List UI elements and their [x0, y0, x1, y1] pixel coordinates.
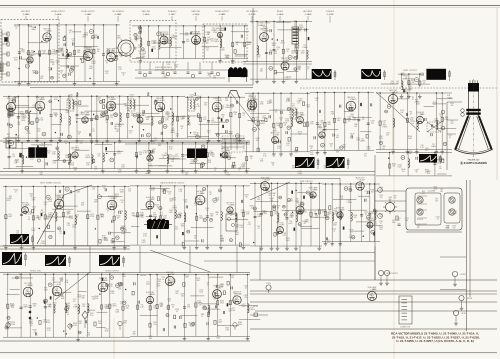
svg-text:.001: .001 [175, 228, 178, 230]
svg-text:SPKR: SPKR [392, 273, 398, 275]
svg-text:KINE CIRCUIT: KINE CIRCUIT [300, 181, 313, 183]
svg-text:.0047: .0047 [156, 285, 160, 287]
svg-text:.0047: .0047 [300, 53, 304, 55]
svg-text:120: 120 [226, 57, 229, 59]
svg-text:⊙ 6AQ5: ⊙ 6AQ5 [258, 24, 265, 27]
svg-text:47: 47 [449, 137, 451, 139]
svg-text:P103: P103 [266, 283, 270, 285]
svg-text:1 MEG: 1 MEG [40, 243, 46, 245]
svg-text:680: 680 [231, 63, 234, 65]
svg-text:680: 680 [185, 174, 188, 176]
svg-text:.05: .05 [65, 143, 67, 145]
svg-text:47: 47 [15, 192, 17, 194]
svg-text:.0047: .0047 [44, 290, 48, 292]
svg-text:47: 47 [412, 99, 414, 101]
svg-text:120: 120 [304, 211, 307, 213]
svg-text:47: 47 [243, 115, 245, 117]
svg-text:680: 680 [206, 42, 209, 44]
svg-text:.01: .01 [162, 279, 164, 281]
svg-text:.001: .001 [175, 156, 178, 158]
svg-text:.001: .001 [44, 204, 47, 206]
svg-text:.01: .01 [307, 68, 309, 70]
svg-text:18: 18 [56, 63, 58, 65]
svg-text:120: 120 [425, 150, 428, 152]
svg-text:18: 18 [131, 115, 133, 117]
svg-text:.05: .05 [103, 187, 105, 189]
svg-text:120: 120 [37, 131, 40, 133]
svg-text:680: 680 [175, 66, 178, 68]
svg-text:47: 47 [239, 170, 241, 172]
svg-text:HORIZ. OSC: HORIZ. OSC [30, 271, 42, 273]
svg-text:.001: .001 [354, 126, 357, 128]
svg-text:47: 47 [333, 168, 335, 170]
svg-text:120: 120 [168, 301, 171, 303]
svg-text:.0047: .0047 [349, 237, 353, 239]
svg-text:680: 680 [409, 153, 412, 155]
svg-text:1 MEG: 1 MEG [293, 53, 299, 55]
svg-text:.05: .05 [216, 214, 218, 216]
svg-text:.0047: .0047 [14, 60, 18, 62]
svg-text:120: 120 [30, 159, 33, 161]
svg-text:120: 120 [371, 123, 374, 125]
svg-text:47: 47 [208, 75, 210, 77]
svg-text:.01: .01 [106, 122, 108, 124]
svg-text:.01: .01 [98, 156, 100, 158]
svg-text:47: 47 [60, 73, 62, 75]
svg-text:1 MEG: 1 MEG [111, 306, 117, 308]
svg-text:.0047: .0047 [8, 216, 12, 218]
svg-text:1 MEG: 1 MEG [85, 157, 91, 159]
svg-text:47: 47 [351, 136, 353, 138]
svg-text:.05: .05 [127, 110, 129, 112]
svg-text:.05: .05 [176, 311, 178, 313]
svg-text:5%: 5% [292, 106, 295, 108]
svg-text:120: 120 [451, 105, 454, 107]
svg-text:680: 680 [343, 147, 346, 149]
svg-text:1 MEG: 1 MEG [140, 56, 146, 58]
svg-text:120: 120 [452, 227, 455, 229]
svg-text:47: 47 [380, 223, 382, 225]
svg-text:.0047: .0047 [93, 37, 97, 39]
svg-text:.0047: .0047 [98, 323, 103, 325]
svg-text:680: 680 [133, 334, 136, 336]
svg-text:1 MEG: 1 MEG [98, 117, 104, 119]
svg-text:680: 680 [146, 119, 149, 121]
svg-text:47: 47 [107, 211, 109, 213]
svg-text:.0047: .0047 [89, 68, 93, 70]
svg-text:WIDTH: WIDTH [140, 275, 147, 277]
svg-text:1 MEG: 1 MEG [317, 126, 323, 128]
svg-text:.05: .05 [198, 118, 200, 120]
svg-text:120: 120 [380, 197, 383, 199]
svg-text:.01: .01 [333, 231, 335, 233]
svg-text:680: 680 [8, 323, 11, 325]
svg-text:.05: .05 [206, 210, 208, 212]
svg-text:120: 120 [244, 297, 247, 299]
svg-text:.0047: .0047 [273, 130, 277, 132]
svg-text:U, 21-T-6256, U, 21-T-6257, U: U, 21-T-6256, U, 21-T-6257, U (Ch. KCS76… [396, 339, 474, 343]
svg-text:SPKR: SPKR [460, 274, 466, 276]
svg-text:47: 47 [162, 157, 164, 159]
svg-text:18: 18 [59, 51, 61, 53]
svg-text:.01: .01 [160, 305, 162, 307]
svg-text:.05: .05 [28, 219, 30, 221]
svg-text:1 MEG: 1 MEG [382, 127, 388, 129]
svg-text:.01: .01 [33, 332, 35, 334]
svg-text:18: 18 [214, 170, 216, 172]
svg-text:.001: .001 [210, 40, 213, 42]
svg-text:⊙ 6AU6: ⊙ 6AU6 [55, 13, 62, 16]
svg-text:47: 47 [135, 40, 137, 42]
svg-text:⊙ 6AB4: ⊙ 6AB4 [85, 13, 92, 16]
svg-text:.001: .001 [131, 215, 134, 217]
svg-text:.01: .01 [124, 105, 126, 107]
svg-text:47: 47 [21, 50, 23, 52]
svg-text:1 MEG: 1 MEG [105, 308, 111, 310]
svg-text:.01: .01 [194, 237, 196, 239]
svg-text:680: 680 [389, 199, 392, 201]
svg-text:⊙ 6CB6: ⊙ 6CB6 [249, 13, 256, 16]
svg-text:RATIO DET: RATIO DET [192, 10, 201, 13]
svg-text:.05: .05 [67, 314, 69, 316]
svg-text:18: 18 [43, 53, 45, 55]
svg-text:680: 680 [196, 134, 199, 136]
svg-text:RF AGC: RF AGC [277, 10, 284, 13]
svg-text:.01: .01 [250, 208, 252, 210]
svg-text:.0047: .0047 [165, 113, 169, 115]
svg-text:.05: .05 [204, 200, 206, 202]
svg-text:120: 120 [435, 201, 438, 203]
svg-text:ANT INPUT: ANT INPUT [22, 10, 31, 13]
svg-text:47: 47 [106, 62, 108, 64]
svg-text:.05: .05 [310, 148, 312, 150]
svg-text:.01: .01 [257, 228, 259, 230]
svg-text:680: 680 [197, 280, 200, 282]
svg-text:.0047: .0047 [366, 149, 370, 151]
svg-text:.01: .01 [288, 78, 290, 80]
svg-text:.0047: .0047 [288, 223, 292, 225]
svg-text:120: 120 [286, 145, 289, 147]
svg-text:.0047: .0047 [295, 200, 299, 202]
svg-text:.0047: .0047 [218, 322, 223, 324]
svg-text:120: 120 [231, 277, 234, 279]
svg-text:Ⓢ 21ATP4 CHASSIS: Ⓢ 21ATP4 CHASSIS [460, 161, 487, 165]
svg-text:⊙ 6AU6: ⊙ 6AU6 [305, 13, 312, 16]
svg-text:.001: .001 [175, 293, 178, 295]
svg-text:1 MEG: 1 MEG [73, 307, 79, 309]
svg-text:⊙ 6AQ5: ⊙ 6AQ5 [193, 13, 200, 16]
svg-text:47: 47 [277, 49, 279, 51]
svg-text:680: 680 [296, 50, 299, 52]
svg-text:47: 47 [201, 316, 203, 318]
svg-text:1 MEG: 1 MEG [346, 202, 352, 204]
svg-text:.0047: .0047 [408, 138, 412, 140]
svg-text:.001: .001 [336, 137, 339, 139]
svg-text:1 MEG: 1 MEG [225, 107, 231, 109]
svg-text:18: 18 [365, 214, 367, 216]
svg-text:.0047: .0047 [141, 242, 145, 244]
svg-text:.0047: .0047 [286, 240, 290, 242]
svg-text:.01: .01 [163, 38, 165, 40]
svg-text:680: 680 [184, 201, 187, 203]
svg-text:⊙ 6AB4: ⊙ 6AB4 [219, 13, 226, 16]
svg-text:680: 680 [152, 151, 155, 153]
svg-text:.05: .05 [405, 78, 407, 80]
svg-text:.05: .05 [234, 295, 236, 297]
svg-text:.001: .001 [422, 193, 425, 195]
svg-text:USED IN REMOTE CIRCUIT: USED IN REMOTE CIRCUIT [160, 183, 185, 185]
svg-text:120: 120 [439, 168, 442, 170]
svg-text:CONNECTOR: CONNECTOR [400, 327, 411, 329]
svg-text:.0047: .0047 [229, 134, 233, 136]
svg-text:18: 18 [250, 158, 252, 160]
svg-text:1ST AUDIO: 1ST AUDIO [168, 10, 177, 13]
svg-text:.01: .01 [194, 205, 196, 207]
svg-text:.01: .01 [53, 305, 55, 307]
svg-text:1 MEG: 1 MEG [15, 137, 21, 139]
svg-text:120: 120 [154, 324, 157, 326]
svg-text:680: 680 [150, 166, 153, 168]
svg-text:.0047: .0047 [151, 49, 155, 51]
svg-text:.05: .05 [19, 276, 21, 278]
svg-text:47: 47 [277, 208, 279, 210]
svg-text:1 MEG: 1 MEG [31, 29, 37, 31]
svg-text:120: 120 [126, 308, 129, 310]
svg-text:FOCUS: FOCUS [417, 219, 424, 221]
svg-text:.001: .001 [169, 201, 172, 203]
svg-text:120: 120 [197, 98, 200, 100]
svg-text:47: 47 [153, 143, 155, 145]
svg-text:VERT OUTPUT: VERT OUTPUT [403, 70, 417, 72]
svg-text:.05: .05 [245, 287, 247, 289]
svg-text:.05: .05 [30, 325, 32, 327]
svg-text:47: 47 [76, 147, 78, 149]
svg-text:1 MEG: 1 MEG [170, 132, 176, 134]
svg-text:.001: .001 [440, 191, 443, 193]
svg-text:.05: .05 [272, 164, 274, 166]
svg-text:47: 47 [16, 28, 18, 30]
svg-text:.001: .001 [137, 38, 140, 40]
svg-text:680: 680 [82, 297, 85, 299]
svg-text:1 MEG: 1 MEG [297, 173, 303, 175]
svg-text:.05: .05 [168, 194, 170, 196]
svg-text:1 MEG: 1 MEG [257, 216, 263, 218]
svg-text:⊙ 6AB4: ⊙ 6AB4 [115, 13, 122, 16]
svg-text:.01: .01 [121, 202, 123, 204]
svg-text:.01: .01 [436, 219, 438, 221]
svg-text:SEE SEPARATE PARTS: SEE SEPARATE PARTS [155, 69, 177, 72]
svg-text:47: 47 [434, 104, 436, 106]
svg-text:SPKR: SPKR [467, 298, 473, 300]
svg-text:120: 120 [110, 117, 113, 119]
svg-text:.05: .05 [410, 114, 412, 116]
svg-text:.001: .001 [374, 213, 377, 215]
svg-text:47: 47 [69, 32, 71, 34]
svg-text:680: 680 [124, 323, 127, 325]
svg-text:18: 18 [245, 196, 247, 198]
svg-text:.01: .01 [7, 136, 9, 138]
svg-text:.05: .05 [130, 97, 133, 99]
svg-text:.01: .01 [181, 128, 183, 130]
svg-text:.01: .01 [284, 125, 286, 127]
svg-text:.0047: .0047 [240, 212, 244, 214]
svg-text:.05: .05 [273, 195, 275, 197]
svg-text:⊙ 4BZ7: ⊙ 4BZ7 [169, 13, 176, 16]
svg-text:TRAP: TRAP [447, 96, 453, 99]
svg-text:.001: .001 [100, 216, 103, 218]
svg-text:⊙ 6CB6: ⊙ 6CB6 [327, 13, 334, 16]
svg-text:.001: .001 [326, 242, 329, 244]
svg-text:1 MEG: 1 MEG [360, 141, 366, 143]
svg-text:.001: .001 [373, 224, 376, 226]
svg-text:18: 18 [321, 138, 323, 140]
svg-text:.0047: .0047 [49, 61, 53, 63]
svg-text:680: 680 [181, 226, 184, 228]
svg-text:.05: .05 [59, 233, 61, 235]
svg-text:.001: .001 [92, 299, 95, 301]
svg-text:680: 680 [307, 107, 310, 109]
svg-text:⊙ 6AB4: ⊙ 6AB4 [23, 13, 30, 16]
svg-text:1 MEG: 1 MEG [162, 77, 168, 79]
svg-text:.05: .05 [156, 207, 158, 209]
svg-text:1 MEG: 1 MEG [172, 207, 178, 209]
svg-text:680: 680 [158, 145, 161, 147]
svg-text:.001: .001 [147, 173, 150, 175]
svg-text:.05: .05 [366, 193, 368, 195]
svg-text:.01: .01 [330, 146, 332, 148]
svg-text:1 MEG: 1 MEG [102, 240, 108, 242]
svg-text:18: 18 [78, 134, 80, 136]
svg-text:VERT. SWEEP CIRCUIT: VERT. SWEEP CIRCUIT [40, 183, 62, 185]
svg-text:.0047: .0047 [280, 43, 284, 45]
svg-text:ANT INPUT: ANT INPUT [304, 10, 313, 13]
svg-text:SPKR: SPKR [461, 313, 467, 315]
svg-text:18: 18 [209, 194, 211, 196]
svg-text:120: 120 [198, 302, 201, 304]
svg-text:RATIO DET: RATIO DET [142, 10, 151, 13]
svg-text:680: 680 [158, 281, 161, 283]
svg-text:.0047: .0047 [104, 331, 108, 333]
svg-text:.01: .01 [206, 50, 208, 52]
svg-text:1 MEG: 1 MEG [298, 27, 304, 29]
svg-text:47: 47 [122, 74, 124, 76]
svg-text:1 MEG: 1 MEG [431, 146, 437, 148]
svg-text:1 MEG: 1 MEG [214, 41, 220, 43]
svg-text:18: 18 [33, 209, 35, 211]
svg-text:⊙ 6AU6: ⊙ 6AU6 [143, 13, 150, 16]
svg-text:.05: .05 [234, 114, 236, 116]
svg-text:.001: .001 [211, 120, 214, 122]
svg-text:18: 18 [23, 51, 25, 53]
svg-text:⊙ 6AU6: ⊙ 6AU6 [277, 13, 284, 16]
svg-text:1 MEG: 1 MEG [302, 47, 308, 49]
svg-text:1 MEG: 1 MEG [225, 174, 231, 176]
svg-text:680: 680 [236, 227, 239, 229]
svg-text:1 MEG: 1 MEG [23, 307, 29, 309]
svg-text:680: 680 [80, 143, 83, 145]
svg-text:1 MEG: 1 MEG [249, 309, 255, 311]
svg-text:120: 120 [30, 196, 33, 198]
svg-text:1 MEG: 1 MEG [171, 281, 177, 283]
svg-text:.0047: .0047 [167, 285, 171, 287]
svg-text:.05: .05 [423, 83, 425, 85]
svg-text:1 MEG: 1 MEG [260, 123, 266, 125]
svg-text:21-6448: 21-6448 [428, 191, 435, 193]
svg-text:.05: .05 [77, 310, 79, 312]
svg-text:HORIZ OUTPUT: HORIZ OUTPUT [105, 271, 120, 273]
svg-text:680: 680 [111, 243, 114, 245]
svg-text:680: 680 [186, 41, 189, 43]
svg-text:120: 120 [128, 190, 131, 192]
svg-text:.05: .05 [207, 284, 209, 286]
svg-text:.05: .05 [397, 220, 399, 222]
svg-text:.001: .001 [159, 214, 162, 216]
svg-text:18: 18 [275, 111, 277, 113]
svg-text:120: 120 [362, 119, 365, 121]
svg-text:1 MEG: 1 MEG [433, 121, 439, 123]
svg-text:18: 18 [370, 213, 372, 215]
svg-text:1 MEG: 1 MEG [293, 35, 299, 37]
svg-text:.01: .01 [243, 165, 245, 167]
svg-text:INTLK: INTLK [253, 306, 259, 308]
svg-text:120: 120 [212, 156, 215, 158]
